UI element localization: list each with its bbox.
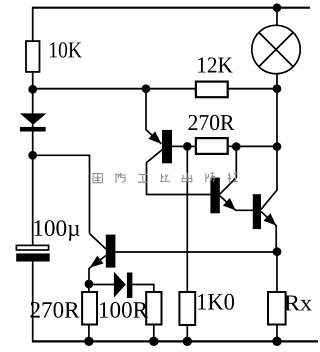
wire Q4 base sense line y=252 (115, 251, 277, 253)
label 100R (100, 302, 148, 318)
diode D1 cathode bar (20, 127, 46, 132)
node junction ground Rx (272, 337, 281, 346)
wire node to D2 anode (89, 284, 114, 286)
transistor Q1 emitter wire from node (146, 89, 162, 144)
transistor Q4 emitter arrow (90, 256, 104, 268)
transistor Q3 emitter wire down (261, 212, 276, 252)
node junction Q3 emitter / Rx / sense wire (273, 247, 282, 256)
wire from node to Q4 collector riser (33, 155, 90, 233)
transistor Q2 emitter arrow (223, 198, 236, 210)
node junction lamp bottom (273, 84, 282, 93)
node junction Q4 emitter / R4 / D2 (85, 280, 94, 289)
char guo (93, 174, 102, 183)
wire Rx bottom stub (276, 325, 278, 342)
wire C1 bottom to ground rail (32, 262, 34, 342)
wire left vertical from top rail to R1 (32, 7, 34, 41)
capacitor C1 bottom plate (16, 253, 50, 261)
wire R5 bottom stub (153, 325, 155, 342)
transistor Q1 base wire (172, 145, 187, 147)
wire R3 right to node (229, 145, 278, 147)
transistor Q3 collector wire (261, 190, 277, 209)
label 1K0 (198, 294, 234, 310)
node junction ground R5 (149, 337, 158, 346)
node junction R1/rail-B (28, 85, 37, 94)
node junction Q1 emitter tap (142, 84, 151, 93)
char ye (160, 174, 170, 181)
capacitor C1 top plate (16, 245, 48, 250)
wire R4 bottom stub (88, 325, 90, 342)
transistor Q1 collector wire down to Q2 base (147, 150, 211, 195)
transistor Q2 collector wire (220, 147, 237, 195)
wire D2 cathode to R5 top (132, 285, 153, 293)
lamp LP1 cross stroke 1 (259, 32, 293, 66)
char she (227, 172, 238, 183)
char ban (206, 173, 215, 182)
wire bottom ground rail (32, 340, 318, 342)
transistor Q2 base bar (210, 178, 219, 214)
wire Rx riser (276, 252, 278, 292)
wire horizontal mid rail y=88.5 left part (33, 88, 195, 90)
diode D2 triangle (114, 272, 126, 298)
wire R6 bottom stub (186, 325, 188, 341)
char gong (138, 174, 148, 182)
wire node down to R4 top (88, 284, 90, 292)
diode D2 cathode bar (127, 273, 132, 299)
label 100u (34, 220, 80, 241)
transistor Q3 base bar (253, 194, 261, 229)
char fang (116, 173, 126, 183)
node junction D1 bottom / Q4 collector tap (28, 151, 37, 160)
wire lamp bottom to collector rail (276, 74, 278, 191)
wire top supply rail (32, 7, 310, 9)
wire node to R3 left (187, 145, 196, 147)
node junction R3 right / Q2 collector (232, 142, 241, 151)
lamp LP1 cross stroke 2 (259, 32, 293, 66)
transistor Q1 base bar (162, 130, 172, 163)
transistor Q4 collector diagonal (90, 234, 106, 250)
wire R6 1K0 riser from Q1 base node (186, 146, 188, 292)
node junction Q1 base / R3 / R6 (183, 142, 192, 151)
node junction collector rail (273, 142, 282, 151)
wire R1 bottom to diode D1 (32, 73, 34, 131)
transistor Q2 emitter wire to Q3 base (220, 196, 253, 211)
wire D1 to capacitor C1 (32, 132, 34, 246)
node junction ground R4 (84, 337, 93, 346)
resistor R4 270R body (82, 292, 97, 325)
resistor R7 Rx body (268, 292, 286, 325)
diode D1 triangle (20, 113, 47, 124)
label 270R bottom (31, 302, 80, 318)
transistor Q1 emitter arrow (148, 131, 161, 144)
resistor R6 1K0 body (179, 292, 195, 325)
label 270R top (189, 115, 235, 130)
label 12K (198, 57, 233, 72)
wire lamp top stub (276, 8, 278, 26)
resistor R1 10K body (26, 41, 40, 72)
char chu (182, 173, 192, 182)
transistor Q4 base bar (106, 235, 116, 268)
transistor Q3 emitter arrow (264, 213, 277, 225)
watermark publisher glyphs (93, 172, 238, 183)
lamp LP1 circle (252, 25, 300, 73)
resistor R2 12K body (196, 82, 228, 98)
label Rx (285, 296, 312, 311)
wire 12K right to lamp node (229, 88, 278, 90)
resistor R3 270R body (196, 138, 228, 154)
label 10K (50, 42, 82, 57)
resistor R5 100R body (146, 292, 161, 325)
node junction ground R6 (183, 337, 192, 346)
transistor Q4 emitter wire down (89, 256, 106, 285)
node junction top rail / lamp (273, 3, 282, 12)
